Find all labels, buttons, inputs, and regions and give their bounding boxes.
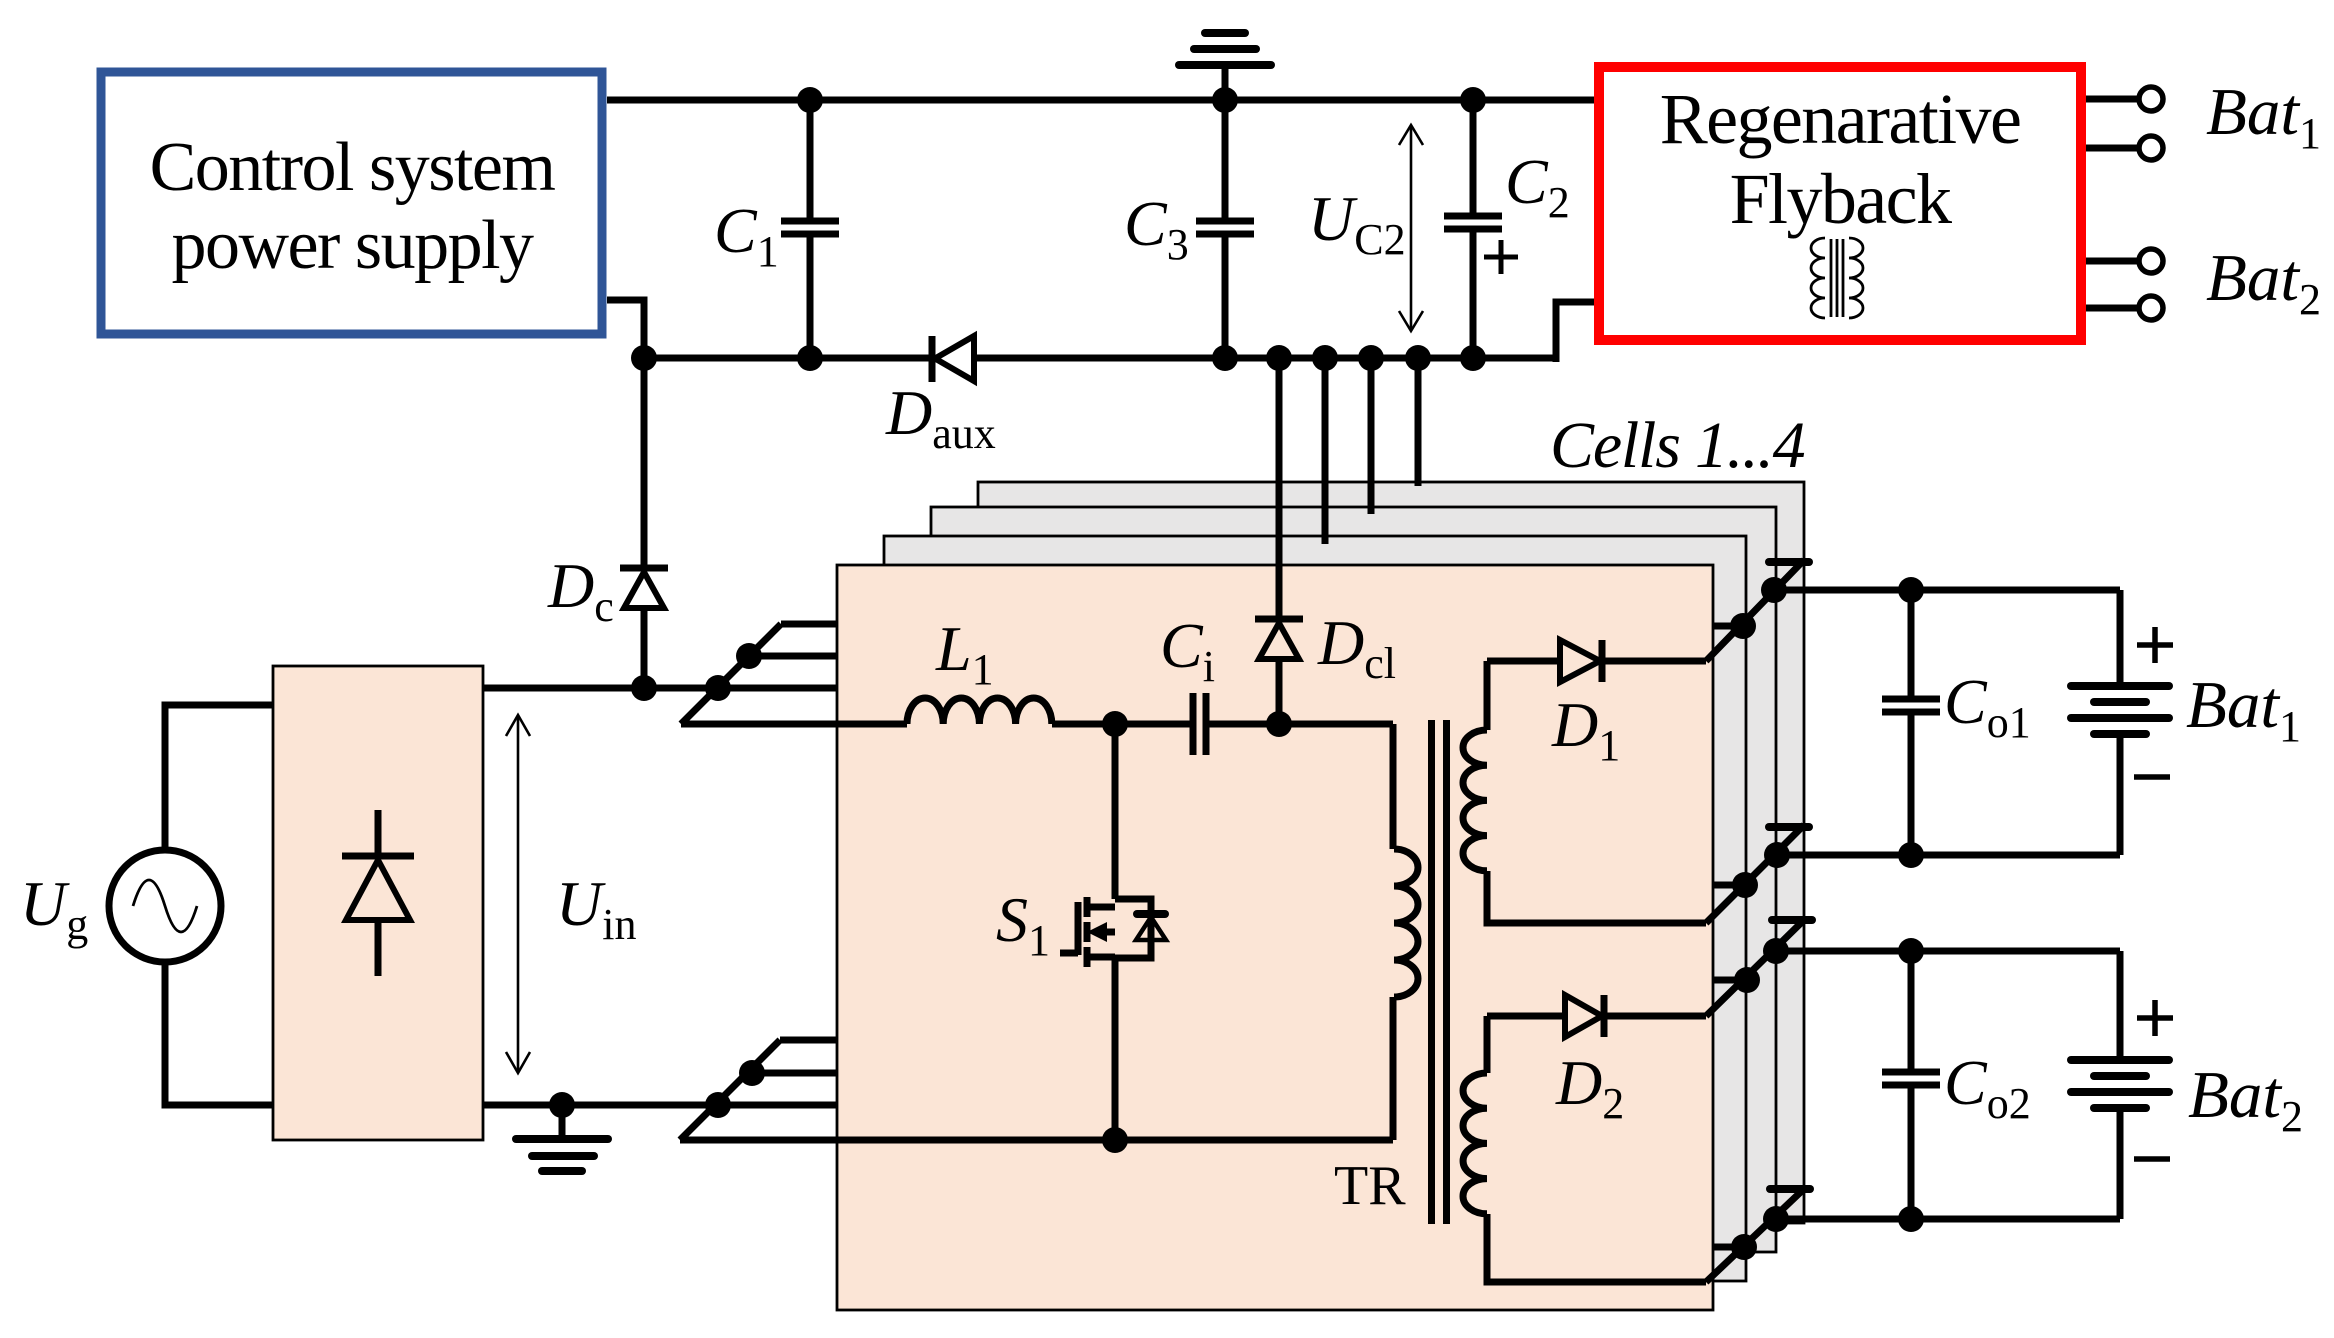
node: clamp bus / cell 4 feed xyxy=(1405,345,1431,371)
node: clamp bus / cell 1 feed xyxy=(1266,345,1292,371)
output fan C (Bat2 +) xyxy=(1706,920,2120,1016)
transformer TR xyxy=(1334,720,1447,1224)
node: input fan top / cell 3 line xyxy=(736,643,762,669)
node: output fan D / cell 2 xyxy=(1731,1234,1757,1260)
ground (top) xyxy=(1179,33,1271,100)
node: output fan C / cell 2 xyxy=(1734,967,1760,993)
node: S1 source / bottom rail xyxy=(1102,1127,1128,1153)
svg-text:Flyback: Flyback xyxy=(1730,159,1952,239)
battery Bat2 xyxy=(2071,951,2303,1219)
input fan (bottom-left) xyxy=(680,1040,837,1140)
wire: clamp bus left segment xyxy=(644,355,932,362)
node: output fan A / cell 2 xyxy=(1730,613,1756,639)
cell layer 3 (gray) xyxy=(931,507,1776,1252)
cell layer 4 (backmost gray) xyxy=(978,482,1804,1223)
rectifier xyxy=(273,666,483,1140)
svg-text:power supply: power supply xyxy=(171,207,534,284)
wire: top bus xyxy=(607,97,1594,104)
input fan (top-left) xyxy=(681,624,837,724)
node: input fan bottom / cell 3 line xyxy=(739,1060,765,1086)
battery Bat1 xyxy=(2071,590,2301,855)
node: output fan B / Bat1- line xyxy=(1764,842,1790,868)
node: top bus / C2 xyxy=(1460,87,1486,113)
wire: cell feed 3 xyxy=(1368,358,1375,514)
cell layer 2 (gray) xyxy=(884,536,1746,1281)
wire: control supply lower stub xyxy=(607,300,644,358)
ground (bottom) xyxy=(516,1105,608,1171)
node: clamp bus / control stub / Dc xyxy=(631,345,657,371)
inductor L1 xyxy=(681,613,1193,724)
wire: rectifier top output xyxy=(483,685,718,692)
arrow Uin xyxy=(506,715,636,1073)
capacitor C2 xyxy=(1444,100,1570,358)
wire: clamp bus step to flyback xyxy=(1556,302,1594,362)
node: clamp bus / C1 xyxy=(797,345,823,371)
node: Co1 top xyxy=(1898,577,1924,603)
wire: cell feed 4 xyxy=(1415,358,1422,486)
svg-text:Control system: Control system xyxy=(150,129,556,206)
wire: switch node to transformer xyxy=(1279,721,1393,728)
capacitor Co1 xyxy=(1882,590,2031,855)
output fan D (Bat2 -) xyxy=(1706,1187,2120,1282)
capacitor C3 xyxy=(1124,100,1254,358)
node: L1 / Ci / S1 drain xyxy=(1102,711,1128,737)
node: Co2 top xyxy=(1898,938,1924,964)
node: input fan top xyxy=(705,675,731,701)
terminal Bat1 xyxy=(2086,75,2321,160)
node: output fan C / Bat2+ line xyxy=(1763,938,1789,964)
svg-text:Cells 1...4: Cells 1...4 xyxy=(1550,409,1805,482)
node: input fan bottom xyxy=(705,1092,731,1118)
node: rectifier return / ground xyxy=(549,1092,575,1118)
block: Control system power supply xyxy=(101,72,602,334)
diode Dcl xyxy=(1255,607,1396,724)
terminal Bat2 xyxy=(2086,241,2321,324)
arrow U_C2 xyxy=(1308,125,1423,331)
block: Regenarative Flyback xyxy=(1599,67,2081,340)
diode Dc xyxy=(547,358,668,688)
diode Daux xyxy=(885,336,996,458)
capacitor Ci xyxy=(1160,610,1279,755)
transformer secondary 1 xyxy=(1463,661,1706,923)
node: rectifier output / Dc xyxy=(631,675,657,701)
node: clamp bus / C3 xyxy=(1212,345,1238,371)
capacitor Co2 xyxy=(1882,951,2031,1219)
node: clamp bus / cell 3 feed xyxy=(1358,345,1384,371)
node: Co1 bottom xyxy=(1898,842,1924,868)
svg-text:Regenarative: Regenarative xyxy=(1660,79,2021,159)
node: Co2 bottom xyxy=(1898,1206,1924,1232)
diode D2 xyxy=(1487,995,1706,1128)
node: Ci / Dcl / TR primary xyxy=(1266,711,1292,737)
wire: rectifier bottom output xyxy=(483,1102,718,1109)
node: top bus / C3 / ground xyxy=(1212,87,1238,113)
wire: cell feed 2 xyxy=(1322,358,1329,544)
cell 1 (front, peach) xyxy=(837,565,1713,1310)
wire: cell bottom rail xyxy=(680,1137,1393,1144)
output fan A (Bat1 +) xyxy=(1706,560,2120,661)
transistor S1 (MOSFET) xyxy=(996,724,1166,1140)
node: output fan B / cell 2 xyxy=(1732,872,1758,898)
svg-text:TR: TR xyxy=(1334,1155,1406,1217)
node: clamp bus / cell 2 feed xyxy=(1312,345,1338,371)
diode D1 xyxy=(1487,640,1706,770)
transformer secondary 2 xyxy=(1463,1016,1706,1282)
source Ug xyxy=(20,705,273,1105)
node: top bus / C1 xyxy=(797,87,823,113)
capacitor C1 xyxy=(714,100,839,358)
wire: clamp bus right segment xyxy=(974,355,1556,362)
output fan B (Bat1 -) xyxy=(1706,825,2120,923)
wire: cell feed 1 (to Dcl) xyxy=(1276,358,1283,617)
node: output fan A / Bat1+ line xyxy=(1761,577,1787,603)
flyback transformer icon xyxy=(1811,238,1863,318)
node: clamp bus / C2 xyxy=(1460,345,1486,371)
node: output fan D / Bat2- line xyxy=(1763,1206,1789,1232)
